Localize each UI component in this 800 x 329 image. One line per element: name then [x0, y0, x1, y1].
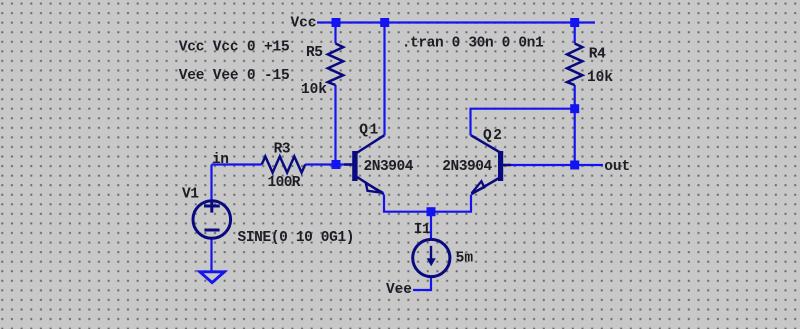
svg-text:Vee Vee 0 -15: Vee Vee 0 -15 — [179, 68, 290, 84]
svg-text:I1: I1 — [414, 222, 431, 238]
svg-text:R4: R4 — [589, 47, 606, 63]
svg-text:R5: R5 — [306, 45, 323, 61]
svg-text:.tran 0 30n 0 0n1: .tran 0 30n 0 0n1 — [402, 35, 544, 51]
svg-text:Vee: Vee — [386, 282, 412, 298]
svg-text:in: in — [212, 152, 229, 168]
svg-text:Vcc Vcc 0 +15: Vcc Vcc 0 +15 — [179, 39, 290, 55]
svg-text:10k: 10k — [587, 70, 613, 86]
svg-text:SINE(0 10 0G1): SINE(0 10 0G1) — [238, 230, 355, 246]
svg-text:R3: R3 — [274, 141, 291, 157]
svg-text:Q2: Q2 — [483, 128, 502, 144]
svg-text:2N3904: 2N3904 — [364, 159, 414, 175]
svg-text:out: out — [604, 159, 630, 175]
svg-text:Vcc: Vcc — [291, 16, 317, 32]
svg-text:5m: 5m — [456, 250, 474, 266]
svg-text:V1: V1 — [182, 186, 199, 202]
svg-text:2N3904: 2N3904 — [442, 159, 492, 175]
svg-text:10k: 10k — [301, 82, 327, 98]
svg-text:Q1: Q1 — [359, 122, 378, 138]
svg-text:100R: 100R — [268, 175, 301, 191]
